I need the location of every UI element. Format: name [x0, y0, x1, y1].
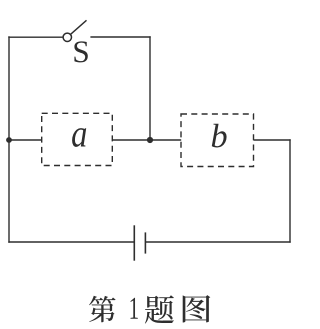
battery long plate (positive)	[133, 225, 135, 260]
node: junction dot on left rail	[6, 137, 12, 143]
wire: top-left horizontal from left rail to switch	[8, 36, 63, 38]
caption char 题	[145, 295, 174, 323]
wire: middle from box b to right rail	[254, 139, 291, 141]
switch S blade (open)	[71, 20, 87, 34]
wire: top-right horizontal from switch to corner	[90, 36, 150, 38]
caption char 第	[89, 296, 116, 322]
wire: middle between box a and box b	[112, 139, 181, 141]
label a	[72, 128, 86, 147]
caption char 图	[183, 295, 211, 322]
wire: left rail vertical	[8, 36, 10, 242]
wire: bottom from battery to right rail	[145, 241, 290, 243]
wire: middle from left rail to box a	[9, 139, 42, 141]
node: junction dot at middle wire / vertical drop	[147, 137, 153, 143]
battery short plate (negative)	[144, 232, 146, 253]
box a (dashed component box)	[42, 113, 113, 165]
caption char 1	[131, 298, 138, 319]
wire: right rail vertical	[289, 139, 291, 242]
box b (dashed component box)	[181, 114, 254, 167]
switch label S	[74, 41, 87, 62]
wire: vertical drop from top wire to middle junction	[149, 36, 151, 140]
wire: bottom from left rail to battery	[8, 241, 134, 243]
switch S pivot circle	[63, 33, 71, 41]
label b	[212, 124, 227, 148]
